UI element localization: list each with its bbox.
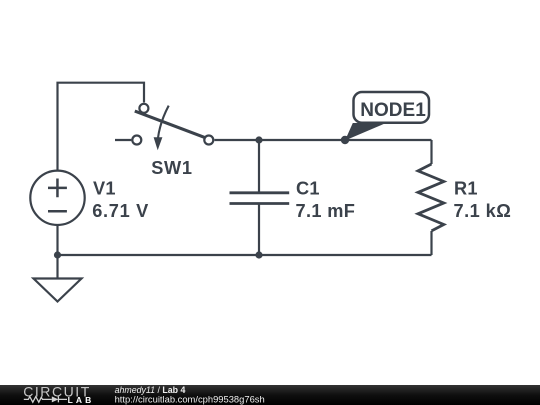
svg-text:LAB: LAB — [68, 395, 95, 405]
blade — [135, 111, 205, 137]
arrowhead — [154, 137, 163, 150]
svg-text:SW1: SW1 — [151, 158, 193, 178]
lower-left terminal — [132, 136, 141, 145]
logo circuit glyph: wire, resistor, diode — [24, 396, 67, 402]
svg-text:http://circuitlab.com/cph99538: http://circuitlab.com/cph99538g76sh — [115, 393, 265, 404]
junction at capacitor top tap — [255, 136, 262, 143]
wire right vertical to resistor — [430, 140, 432, 164]
wire resistor bottom lead — [430, 231, 432, 255]
junction at ground rail — [54, 251, 61, 258]
wire from V1 bottom to ground junction — [56, 226, 58, 256]
capacitor C1 — [230, 193, 290, 204]
wire bottom rail — [58, 254, 432, 256]
flag tail — [345, 123, 386, 141]
right terminal — [204, 136, 213, 145]
svg-text:R1: R1 — [454, 179, 478, 199]
wire stub switch lower-left terminal — [115, 139, 131, 141]
node dot — [341, 136, 349, 144]
svg-text:7.1 kΩ: 7.1 kΩ — [454, 201, 512, 221]
wire from V1 top to switch top terminal — [58, 83, 145, 170]
footer bar — [0, 385, 540, 405]
voltage source V1 — [30, 171, 84, 225]
svg-text:7.1 mF: 7.1 mF — [296, 201, 356, 221]
wire capacitor bottom lead — [258, 204, 260, 256]
resistor R1 — [418, 164, 444, 231]
wire capacitor top lead — [258, 140, 260, 193]
svg-text:NODE1: NODE1 — [360, 100, 426, 121]
switch SW1 — [132, 104, 213, 150]
flag box — [354, 92, 430, 123]
wire from switch right terminal to right corner — [215, 139, 432, 141]
svg-text:V1: V1 — [93, 179, 116, 199]
ground — [34, 255, 82, 302]
top terminal — [139, 104, 148, 113]
junction at capacitor bottom tap — [255, 251, 262, 258]
node NODE1 flag — [341, 92, 429, 144]
svg-text:C1: C1 — [296, 179, 320, 199]
svg-text:6.71 V: 6.71 V — [92, 201, 149, 221]
actuation arrow arc — [158, 106, 169, 139]
